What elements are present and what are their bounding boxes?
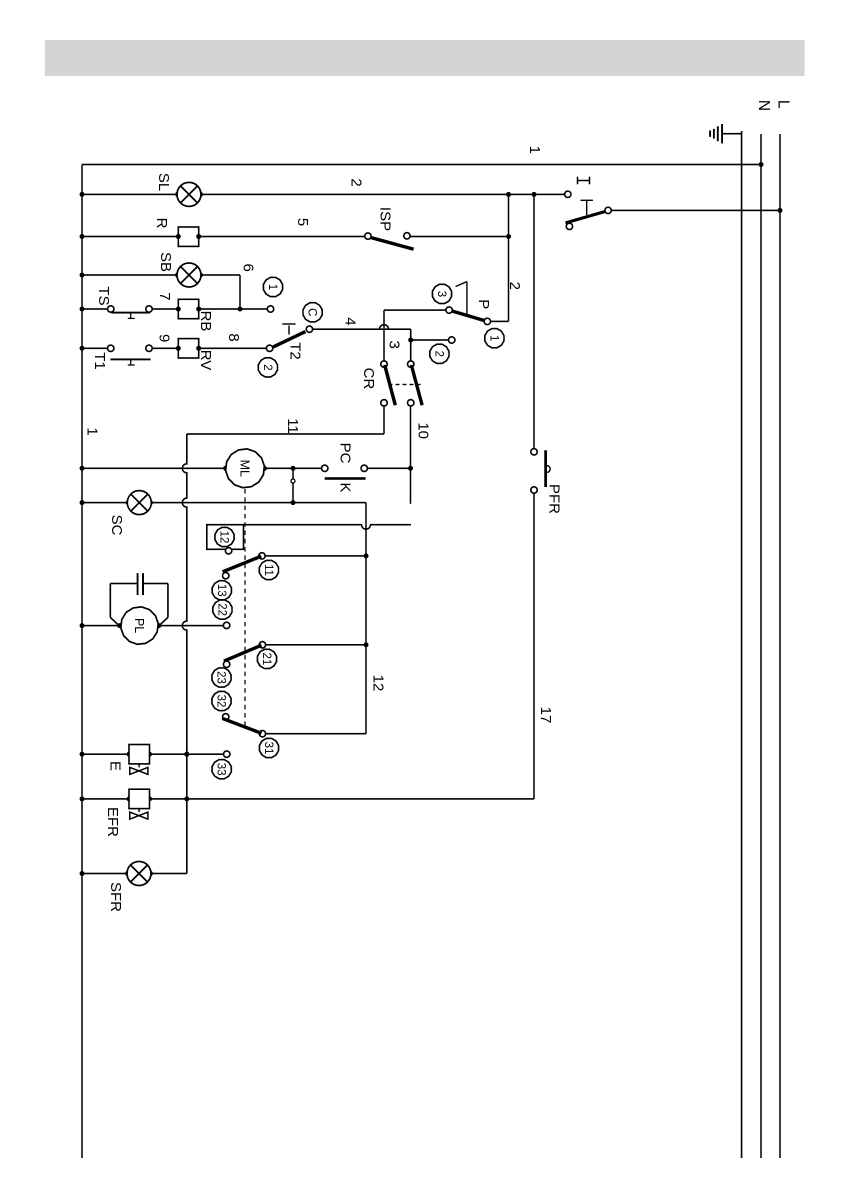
dots R box — [176, 234, 201, 239]
svg-text:31: 31 — [262, 742, 274, 755]
junction dot L/I — [778, 208, 783, 213]
svg-text:RV: RV — [197, 350, 214, 371]
valve EFR — [130, 809, 148, 820]
svg-text:11: 11 — [284, 418, 301, 434]
wire RB column upper — [152, 308, 267, 310]
relay coil RB — [178, 299, 198, 318]
junction dot R bus — [80, 234, 85, 239]
wire SC column — [82, 502, 366, 504]
svg-text:33: 33 — [215, 763, 227, 776]
wire ML column upper — [368, 467, 411, 469]
svg-text:SC: SC — [108, 515, 125, 536]
svg-text:PC: PC — [337, 443, 354, 464]
lamp SL — [177, 182, 201, 206]
svg-text:R: R — [153, 218, 170, 229]
thermostat TS — [108, 306, 153, 319]
timer box — [207, 525, 244, 550]
contact PC — [322, 465, 368, 471]
svg-text:17: 17 — [537, 707, 554, 724]
svg-text:22: 22 — [215, 603, 227, 616]
wire PE rail — [741, 131, 743, 1158]
wire bottom bus — [81, 165, 83, 1159]
wire L to switch I — [612, 209, 781, 211]
contact cam 21-23 — [223, 642, 265, 668]
svg-text:11: 11 — [262, 564, 274, 576]
label 8 — [225, 333, 242, 341]
label T2 — [286, 342, 303, 360]
wire 2 branch to P — [491, 194, 509, 321]
octagon label 33 — [212, 760, 231, 779]
label T1 — [91, 352, 108, 370]
svg-text:13: 13 — [215, 584, 227, 597]
junction dots SFR — [80, 871, 154, 876]
svg-text:1: 1 — [84, 427, 101, 435]
label I — [578, 177, 590, 185]
svg-text:L: L — [774, 100, 791, 109]
capacitor plates — [138, 573, 143, 595]
svg-text:12: 12 — [370, 675, 387, 692]
label 2 (branch) — [506, 282, 523, 290]
wire PL column — [82, 625, 223, 627]
wire P to CR — [384, 310, 446, 361]
wire 2 column — [82, 193, 564, 195]
wire 12 — [365, 503, 367, 734]
wire 10 — [410, 406, 412, 504]
bar K — [325, 477, 366, 480]
lamp SB — [177, 263, 201, 287]
octagon label 13 — [212, 581, 231, 600]
contact cam 11-13 — [223, 553, 266, 579]
timer feed line — [244, 525, 412, 530]
svg-text:ML: ML — [238, 460, 252, 477]
switch I — [565, 191, 612, 229]
label EFR — [104, 807, 121, 837]
wire 11 — [182, 406, 384, 873]
svg-text:2: 2 — [348, 178, 365, 186]
wire N rail — [760, 134, 762, 1158]
label 6 — [240, 264, 257, 272]
svg-text:5: 5 — [294, 218, 311, 226]
label RV — [197, 350, 214, 371]
svg-text:3: 3 — [435, 291, 447, 297]
switch ISP — [365, 233, 414, 250]
junction dot N/1 — [759, 162, 764, 167]
terminal 1 RB — [267, 306, 273, 312]
svg-text:T1: T1 — [91, 352, 108, 370]
label L — [774, 100, 791, 109]
connector on stub — [291, 479, 295, 483]
junction dots E — [80, 752, 190, 757]
svg-text:1: 1 — [266, 284, 278, 290]
contact cam 31-32 — [222, 714, 265, 737]
wire 17 — [533, 493, 535, 799]
label K — [337, 482, 354, 492]
label 11 — [284, 418, 301, 434]
junction dots wire 11 — [184, 752, 189, 802]
wire drop 31 — [266, 733, 366, 735]
label 2 (wire2) — [348, 178, 365, 186]
wire SFR column — [82, 873, 187, 875]
label RB — [197, 311, 214, 332]
svg-text:8: 8 — [225, 333, 242, 341]
label CR — [360, 368, 377, 390]
svg-text:T2: T2 — [286, 342, 303, 360]
label 12 — [370, 675, 387, 692]
label SB — [157, 252, 174, 272]
wire EFR column — [82, 798, 534, 800]
octagon label 2 T2 — [258, 358, 277, 377]
label 17 — [537, 707, 554, 724]
svg-text:3: 3 — [386, 341, 403, 349]
wire E column — [82, 753, 223, 755]
label PC — [337, 443, 354, 464]
lamp SC — [127, 491, 151, 515]
label 3 — [386, 341, 403, 349]
svg-text:E: E — [107, 761, 124, 771]
label 10 — [415, 422, 432, 439]
terminal 22 PL — [223, 622, 229, 628]
svg-text:SB: SB — [157, 252, 174, 272]
wire SB column — [82, 275, 240, 309]
svg-text:7: 7 — [156, 292, 173, 300]
lamp SFR — [127, 862, 151, 886]
wire RV column lower — [82, 347, 107, 349]
terminal 12 — [225, 548, 231, 554]
contact CR pole B — [381, 361, 395, 406]
valve coil EFR — [129, 789, 150, 808]
svg-text:TS: TS — [95, 286, 112, 305]
switch T2 — [266, 324, 312, 351]
octagon label 2 stub — [430, 344, 449, 363]
svg-text:EFR: EFR — [104, 807, 121, 837]
cam shaft dashed — [244, 489, 246, 728]
junction dots wire 12 — [364, 553, 369, 647]
switch P — [446, 282, 491, 325]
svg-text:10: 10 — [415, 422, 432, 439]
wire ML column lower — [82, 467, 321, 469]
svg-text:K: K — [337, 482, 354, 492]
octagon label 11 — [259, 560, 278, 579]
label TS — [95, 286, 112, 305]
wire drop 11 — [265, 555, 366, 557]
junction dot stub/SC — [291, 500, 296, 505]
label 5 — [294, 218, 311, 226]
octagon label 1 P — [485, 329, 504, 348]
svg-text:SFR: SFR — [107, 882, 124, 912]
label SC — [108, 515, 125, 536]
motor ML — [226, 449, 265, 488]
wire 1 feeder — [82, 164, 761, 166]
svg-text:12: 12 — [218, 531, 230, 544]
label SFR — [107, 882, 124, 912]
junction dots wire 2 — [80, 192, 537, 197]
junction dot RV bus — [80, 346, 85, 351]
octagon label 31 — [259, 738, 278, 757]
svg-text:2: 2 — [261, 364, 273, 370]
svg-text:CR: CR — [360, 368, 377, 390]
dots RV box — [176, 346, 201, 351]
label 7 — [156, 292, 173, 300]
svg-text:N: N — [755, 100, 772, 111]
wire RV column upper — [152, 347, 266, 349]
label E — [107, 761, 124, 771]
junction dot RB bus — [80, 307, 85, 312]
junction dot wire10/ML — [408, 466, 413, 471]
svg-text:21: 21 — [260, 653, 272, 666]
svg-text:9: 9 — [155, 334, 172, 342]
wire 4 — [313, 325, 411, 361]
svg-text:ISP: ISP — [377, 207, 394, 231]
svg-text:2: 2 — [432, 351, 444, 357]
label SL — [155, 173, 172, 191]
wire drop 21 — [266, 644, 366, 646]
svg-text:C: C — [306, 308, 318, 316]
svg-text:PFR: PFR — [545, 484, 562, 514]
relay coil RV — [178, 339, 198, 358]
wire 2 branch to PFR — [533, 194, 535, 448]
wire L rail — [779, 134, 781, 1158]
valve coil E — [129, 745, 150, 764]
switch PFR — [531, 449, 550, 494]
junction dots SC — [80, 500, 154, 505]
header redaction bar — [45, 40, 805, 76]
octagon label 21 — [257, 649, 276, 668]
junction dots ML column — [80, 466, 296, 471]
label P — [475, 299, 492, 309]
svg-text:SL: SL — [155, 173, 172, 191]
junction dots SB — [80, 273, 243, 312]
junction dot ISP top — [506, 234, 511, 239]
wire R-ISP column upper — [410, 236, 508, 238]
svg-text:6: 6 — [240, 264, 257, 272]
thermostat T1 — [108, 345, 153, 365]
svg-text:P: P — [475, 299, 492, 309]
junction dots PL — [80, 623, 162, 628]
label 1 (top) — [526, 146, 543, 154]
octagon label 32 — [212, 691, 231, 710]
resistor R — [178, 227, 198, 246]
label N — [755, 100, 772, 111]
capacitor leads — [110, 584, 168, 626]
octagon label 23 — [212, 668, 231, 687]
svg-text:2: 2 — [506, 282, 523, 290]
wire R-ISP column lower — [82, 236, 365, 238]
junction dots EFR — [80, 796, 153, 801]
contact CR pole A — [408, 361, 423, 406]
svg-text:32: 32 — [215, 695, 227, 708]
octagon label 12 — [215, 527, 234, 546]
svg-text:4: 4 — [341, 317, 358, 325]
terminal 2 stub — [408, 337, 455, 343]
label R — [153, 218, 170, 229]
motor PL — [121, 607, 158, 644]
dots RB box — [176, 307, 201, 312]
label 4 — [341, 317, 358, 325]
label PFR — [545, 484, 562, 514]
label 1 (bottom) — [84, 427, 101, 435]
CR mechanical link — [392, 384, 421, 386]
label 9 — [155, 334, 172, 342]
svg-text:23: 23 — [215, 671, 227, 684]
wire ML-SC stub — [292, 468, 294, 502]
octagon label 22 — [213, 600, 232, 619]
ground — [710, 124, 742, 143]
wire RB column lower — [82, 308, 107, 310]
valve E — [130, 764, 148, 775]
svg-text:1: 1 — [526, 146, 543, 154]
terminal 33 E — [224, 751, 230, 757]
octagon label C — [303, 303, 322, 322]
svg-text:1: 1 — [487, 335, 499, 341]
octagon label 3 P — [432, 284, 451, 303]
svg-text:PL: PL — [132, 618, 146, 633]
svg-text:RB: RB — [197, 311, 214, 332]
octagon label 1 RB — [263, 277, 282, 296]
label ISP — [377, 207, 394, 231]
